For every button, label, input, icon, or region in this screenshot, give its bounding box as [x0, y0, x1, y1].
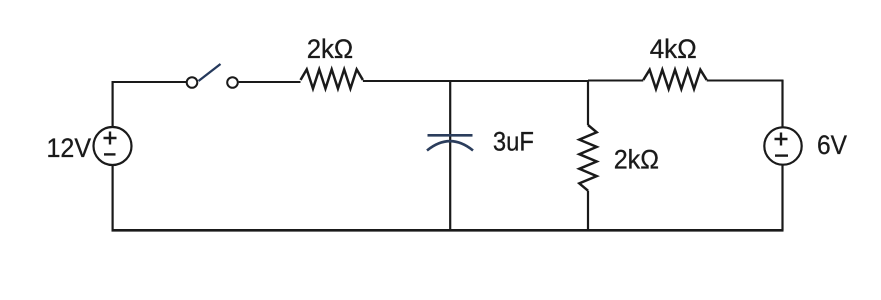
label V2 value 6V: [817, 130, 847, 160]
wire top-left from source to switch: [112, 82, 187, 127]
capacitor C1 3uF: [427, 135, 473, 150]
wire V2 to bottom rail: [112, 165, 784, 231]
wire node B to R3: [588, 80, 643, 82]
label R1 value 2k ohm: [307, 34, 354, 64]
label V1 value 12V: [47, 133, 92, 163]
wire R3 to right rail: [707, 80, 784, 128]
resistor R3 4k ohm (top right): [643, 70, 706, 89]
label R3 value 4k ohm: [650, 34, 697, 64]
svg-text:3uF: 3uF: [493, 127, 534, 157]
svg-text:12V: 12V: [47, 133, 92, 163]
svg-text:2kΩ: 2kΩ: [614, 145, 659, 175]
wire switch to R1: [239, 81, 301, 83]
wire resistor branch top lead (node B down): [587, 81, 589, 125]
wire V1 to bottom rail: [111, 165, 113, 230]
svg-text:6V: 6V: [817, 130, 847, 160]
svg-text:2kΩ: 2kΩ: [307, 34, 354, 64]
label R2 value 2k ohm: [614, 145, 659, 175]
resistor R1 2k ohm (top left): [301, 69, 363, 88]
label C1 value 3uF: [493, 127, 534, 157]
wire R1 to node A: [363, 80, 450, 82]
voltage source V2 6V: [764, 127, 801, 164]
switch SW1: [187, 64, 238, 88]
voltage source V1 12V: [94, 127, 132, 165]
resistor R2 2k ohm (vertical): [579, 125, 596, 191]
svg-text:4kΩ: 4kΩ: [650, 34, 697, 64]
wire resistor branch bottom lead: [587, 191, 589, 230]
wire node A to node B (top): [450, 80, 588, 82]
wire capacitor branch (node A down): [449, 81, 451, 230]
